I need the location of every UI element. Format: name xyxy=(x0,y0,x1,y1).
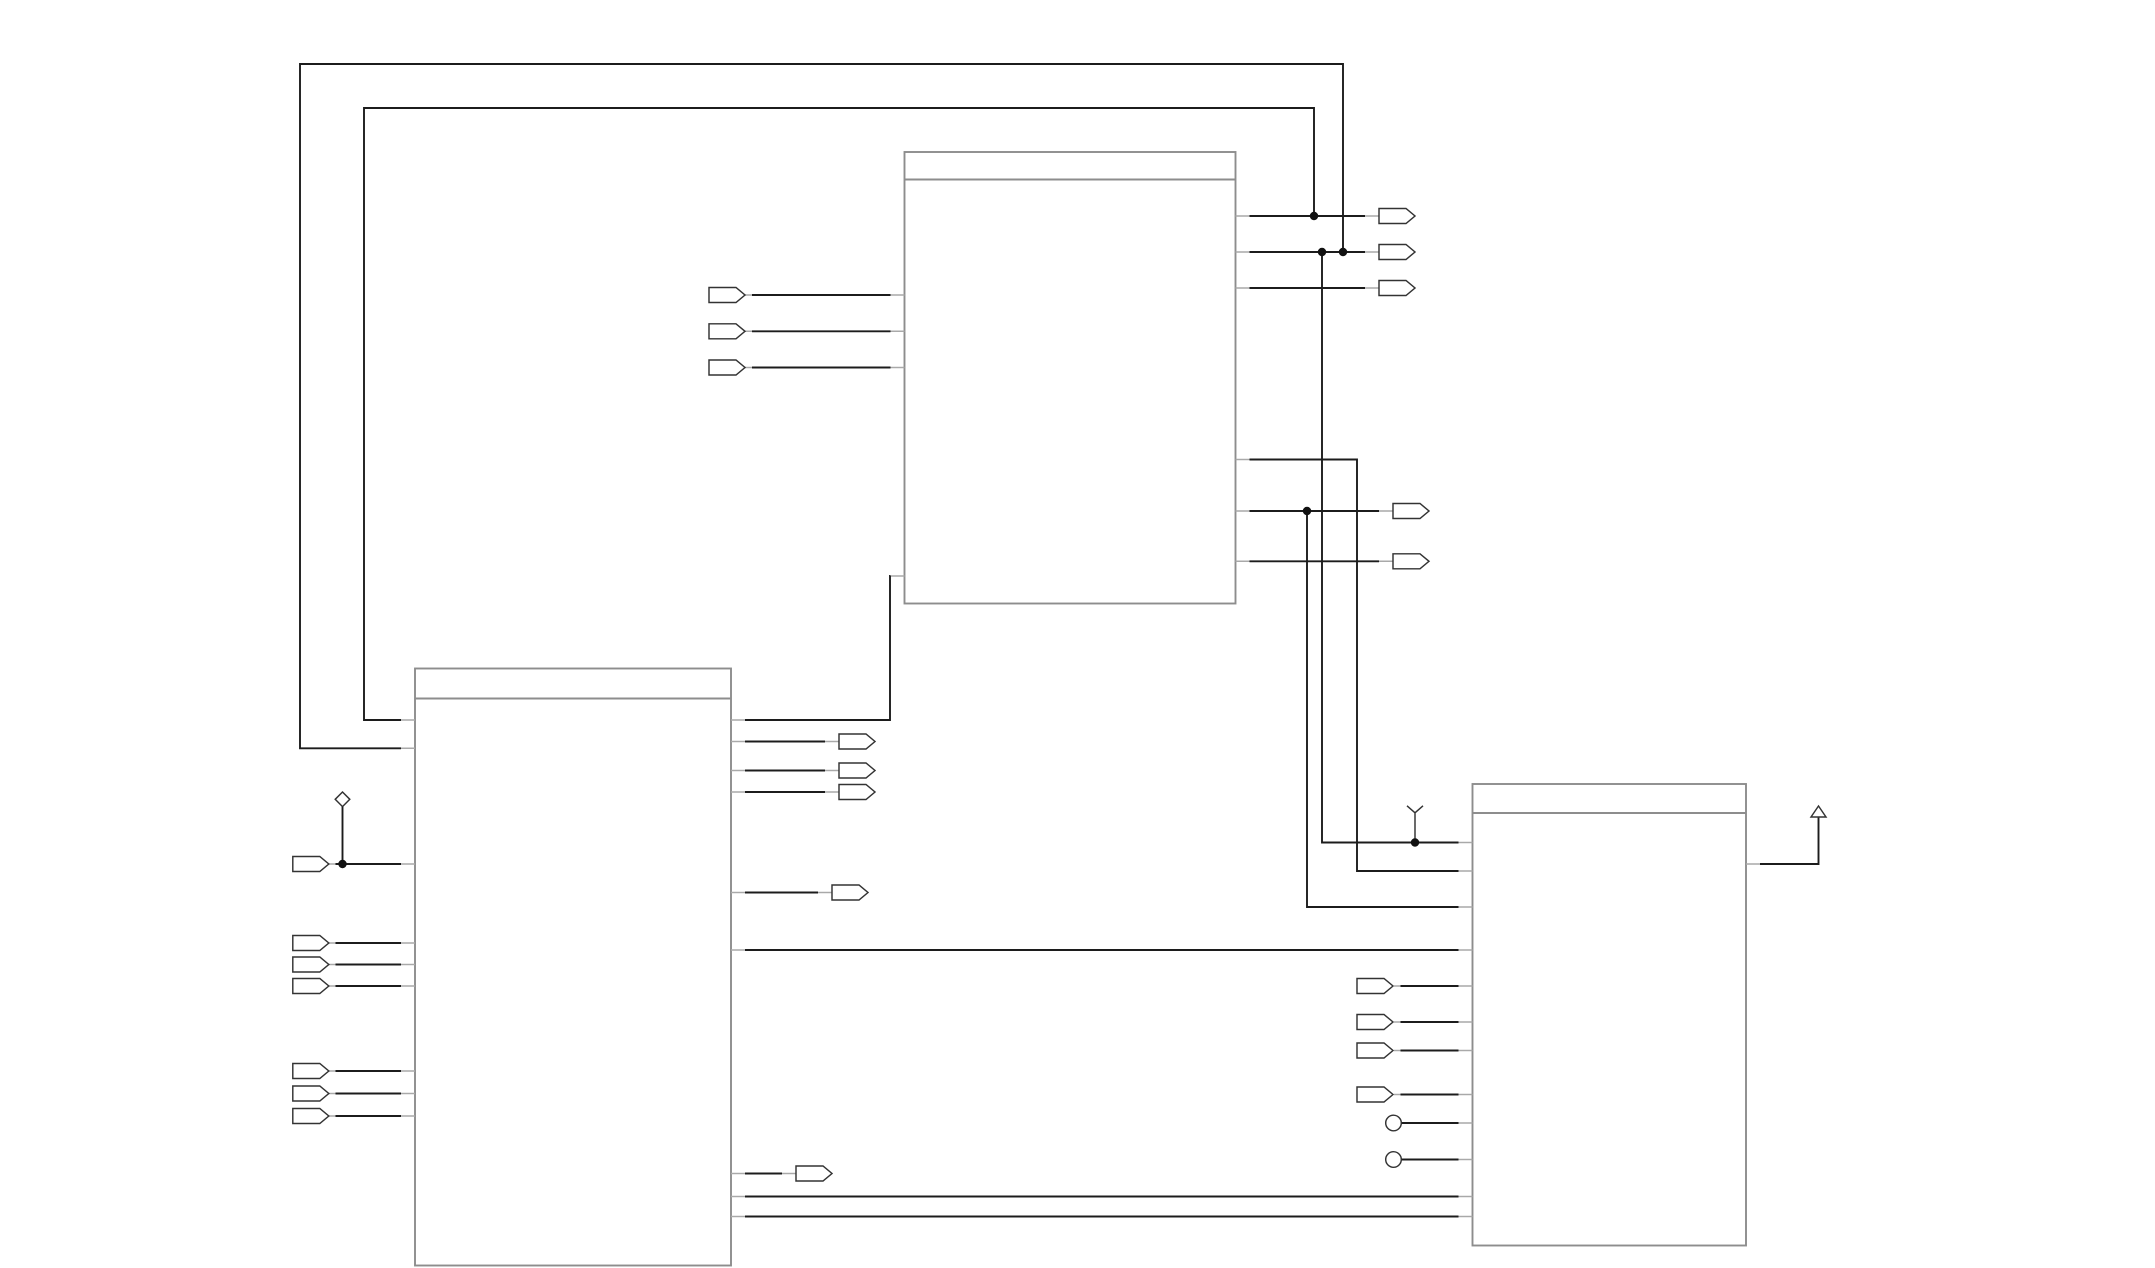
port flag row 864 xyxy=(293,857,329,872)
junction dot row 252 / net C xyxy=(1318,248,1326,256)
stubs at flags left of U2 upper xyxy=(329,864,336,986)
stub at flag row 892 xyxy=(818,892,832,894)
pin stubs U2 left edge xyxy=(401,720,415,1116)
port flag row 511 xyxy=(1393,504,1429,519)
wire row 964 flag to U2 xyxy=(336,964,402,966)
wire row 216: U1 pin to flag xyxy=(1250,215,1366,217)
port flag row 964 xyxy=(293,957,329,972)
block U1 (central) xyxy=(905,152,1236,604)
diamond symbol xyxy=(335,792,350,807)
wire row 986 flag to U3 xyxy=(1401,985,1459,987)
wire row 1094 flag to U3 xyxy=(1401,1094,1459,1096)
stubs at flags right of U2 xyxy=(825,742,839,793)
port flag row 1116 xyxy=(293,1109,329,1124)
wire row 1050 flag to U3 xyxy=(1401,1050,1459,1052)
junction dot row 216 / net B xyxy=(1310,212,1318,220)
port flag row 792 xyxy=(839,785,875,800)
wire row 986 flag to U2 xyxy=(336,985,402,987)
wire bus row 1196: U2 to U3 xyxy=(745,1196,1459,1198)
port flag row 986 right xyxy=(1357,979,1393,994)
port flag row 561 xyxy=(1393,554,1429,569)
pin stubs U1 left edge xyxy=(891,295,905,576)
wire bus row 1216: U2 to U3 xyxy=(745,1216,1459,1218)
wire net F: U2 pin 720 right and up to U1 pin 576 xyxy=(745,576,891,720)
junction dot row 864 / diamond xyxy=(338,860,346,868)
wire row 561: U1 pin to flag xyxy=(1250,560,1380,562)
wire net B: U2 pin 720 up and over to junction on row 216 xyxy=(364,108,1314,720)
port flag row 252 xyxy=(1379,245,1415,260)
port flag row 892 xyxy=(832,885,868,900)
wire bus row 950: U2 to U3 xyxy=(745,949,1459,951)
port flag row 986 left xyxy=(293,979,329,994)
circle pin row 1123 xyxy=(1386,1115,1402,1131)
wire row 1173 to flag xyxy=(745,1173,782,1175)
port flag U1 left row 295 xyxy=(709,288,745,303)
pin stubs U3 left edge xyxy=(1459,843,1473,1217)
wire row 1116 flag to U2 xyxy=(336,1115,402,1117)
junction dot row 252 / net A xyxy=(1339,248,1347,256)
port flag row 943 xyxy=(293,936,329,951)
port flag row 1022 xyxy=(1357,1015,1393,1030)
port flag row 1071 xyxy=(293,1064,329,1079)
port flag row 216 xyxy=(1379,209,1415,224)
pin stub U3 right edge xyxy=(1746,863,1760,865)
wire net C: from junction row 252 down to U3 pin 842 xyxy=(1322,252,1459,843)
wire from diamond down to junction row 864 xyxy=(342,807,344,864)
wire row 331: flag to U1 xyxy=(752,330,891,332)
wire row 792 to flag xyxy=(745,791,825,793)
wire row 943 flag to U2 xyxy=(336,942,402,944)
port flag U1 left row 367 xyxy=(709,360,745,375)
port flag row 288 xyxy=(1379,281,1415,296)
pin stubs U2 right edge xyxy=(731,720,745,1217)
wire row 367: flag to U1 xyxy=(752,367,891,369)
stub at flag row 1173 xyxy=(782,1173,796,1175)
wire row 864: flag to U2 pin xyxy=(336,863,402,865)
wire row 1123 circle to U3 xyxy=(1401,1122,1458,1124)
wire net D: U1 pin 459 down to U3 pin 871 xyxy=(1250,460,1459,872)
stubs at flags left of U3 xyxy=(1394,986,1401,1095)
antenna symbol xyxy=(1407,806,1423,843)
stubs at flags rows 216-288 xyxy=(1365,216,1379,288)
wire row 1093 flag to U2 xyxy=(336,1093,402,1095)
wire row 1071 flag to U2 xyxy=(336,1070,402,1072)
wire row 1159 circle to U3 xyxy=(1401,1159,1458,1161)
wire net G: U3 right pin 864 to power triangle xyxy=(1760,817,1819,864)
stubs at flags of U1 left xyxy=(745,295,752,368)
block U2 (left) xyxy=(415,669,731,1266)
wire row 295: flag to U1 xyxy=(752,294,891,296)
power triangle symbol xyxy=(1811,806,1826,817)
wire row 892 to flag xyxy=(745,892,818,894)
wire row 252: U1 pin to flag xyxy=(1250,251,1366,253)
port flag row 1093 xyxy=(293,1086,329,1101)
port flag row 1094 xyxy=(1357,1087,1393,1102)
junction dot row 511 / net E xyxy=(1303,507,1311,515)
port flag row 770 xyxy=(839,763,875,778)
port flag U1 left row 331 xyxy=(709,324,745,339)
wire row 288: U1 pin to flag xyxy=(1250,287,1366,289)
pin stubs U1 right edge xyxy=(1236,216,1250,561)
wire row 1022 flag to U3 xyxy=(1401,1021,1459,1023)
stubs at flags rows 511-561 xyxy=(1379,511,1393,561)
wire row 741 to flag xyxy=(745,741,825,743)
port flag row 1173 xyxy=(796,1166,832,1181)
wire net E: from junction row 511 down to U3 pin 907 xyxy=(1307,511,1459,907)
wire row 770 to flag xyxy=(745,770,825,772)
port flag row 741 xyxy=(839,734,875,749)
stubs at flags left of U2 lower xyxy=(329,1071,336,1116)
port flag row 1050 xyxy=(1357,1043,1393,1058)
wire row 511: U1 pin to flag xyxy=(1250,510,1380,512)
block U3 (right) xyxy=(1473,784,1747,1246)
circle pin row 1159 xyxy=(1386,1152,1402,1168)
wire net A: U2 pin 748 up and over to junction on row 252 xyxy=(300,64,1343,748)
junction dot row 842 / antenna xyxy=(1411,838,1419,846)
